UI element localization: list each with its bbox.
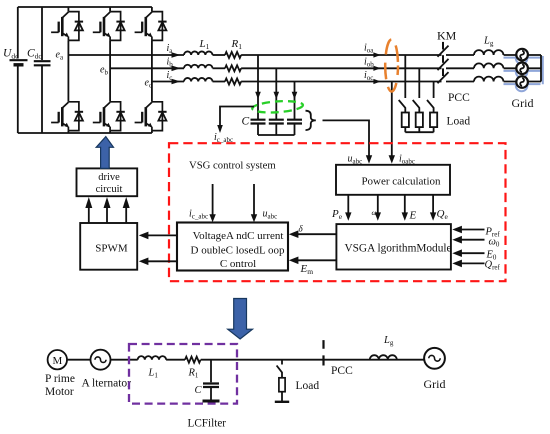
arrow ioabc into power calc xyxy=(389,155,395,163)
wire phase b L1-R1 xyxy=(213,67,226,69)
arrow down cap a xyxy=(255,92,261,100)
svg-text:ia: ia xyxy=(167,43,174,55)
machine M prime motor xyxy=(48,350,67,369)
inductor Lg single line xyxy=(370,355,397,360)
svg-text:R1: R1 xyxy=(231,38,243,51)
resistor R1 phase b xyxy=(225,65,241,71)
svg-text:A lternator: A lternator xyxy=(82,378,132,390)
wire: uabc sense line xyxy=(323,120,370,155)
svg-text:R1: R1 xyxy=(188,368,199,380)
svg-text:PCC: PCC xyxy=(331,365,353,377)
load branch bottom xyxy=(275,360,289,402)
wire: phase a line xyxy=(68,54,184,56)
svg-text:VSG control system: VSG control system xyxy=(189,159,276,171)
svg-text:Power calculation: Power calculation xyxy=(361,176,441,188)
battery Udc xyxy=(10,7,28,133)
arrow ic_abc xyxy=(217,125,223,133)
svg-text:Cdc: Cdc xyxy=(27,48,42,61)
svg-text:E: E xyxy=(409,210,417,222)
VSG control system red dashed box xyxy=(169,143,506,281)
svg-text:circuit: circuit xyxy=(96,184,123,195)
svg-text:C: C xyxy=(242,116,250,128)
arrow down cap b xyxy=(274,92,280,100)
arrow ioa xyxy=(373,52,380,57)
wire: ioabc tap xyxy=(391,82,393,156)
arrow E xyxy=(404,195,406,213)
resistor R1 single line xyxy=(185,357,201,363)
svg-text:C ontrol: C ontrol xyxy=(220,258,256,270)
PCC bus mark xyxy=(322,340,324,365)
input omega0 xyxy=(460,239,485,241)
wire: phase b line xyxy=(110,67,184,69)
transistor Q1 IGBT with freewheel diode (top leg1) xyxy=(51,12,83,41)
capacitor C phase b xyxy=(269,120,284,124)
load resistor c xyxy=(430,113,437,128)
resistor R1 phase a xyxy=(225,52,241,58)
svg-text:Load: Load xyxy=(447,116,471,128)
wire phase a to grid xyxy=(241,54,441,56)
wire phase a L1-R1 xyxy=(213,54,226,56)
svg-text:VSGA lgorithmModule: VSGA lgorithmModule xyxy=(344,243,451,255)
svg-text:ic: ic xyxy=(167,70,173,82)
arrow uabc into control xyxy=(253,184,255,215)
svg-text:ω: ω xyxy=(372,208,377,217)
transistor Q4 IGBT with freewheel diode (bottom leg2) xyxy=(93,102,125,131)
svg-text:eb: eb xyxy=(100,65,108,77)
arrow ic xyxy=(172,79,181,85)
svg-text:ioabc: ioabc xyxy=(399,154,415,166)
svg-text:LCFilter: LCFilter xyxy=(188,418,227,430)
switch KM phase c xyxy=(438,68,475,83)
svg-text:δ: δ xyxy=(299,224,304,234)
inductor Lg phase c xyxy=(474,77,503,82)
AC source grid b xyxy=(516,63,528,75)
capacitor C single line xyxy=(203,360,220,401)
load switch b xyxy=(413,100,420,113)
capacitor C phase c xyxy=(287,120,302,124)
transistor Q2 IGBT with freewheel diode (bottom leg1) xyxy=(51,102,83,131)
svg-text:C: C xyxy=(195,385,203,396)
wire: load bottoms tie xyxy=(405,127,433,132)
input Pref xyxy=(460,229,485,231)
svg-text:ioc: ioc xyxy=(364,70,373,82)
input Qref xyxy=(460,262,485,264)
arrow omega xyxy=(377,195,379,213)
wire: cap bottoms tie xyxy=(258,124,295,136)
load resistor b xyxy=(416,113,423,128)
wire: leg 2 verticals xyxy=(109,7,111,133)
transistor Q6 IGBT with freewheel diode (bottom leg3) xyxy=(135,102,167,131)
load branch b drop xyxy=(418,68,420,98)
wire control to SPWM bottom xyxy=(147,260,178,262)
transistor Q5 IGBT with freewheel diode (top leg3) xyxy=(135,12,167,41)
block: SPWM xyxy=(80,223,137,270)
svg-text:uabc: uabc xyxy=(348,154,363,166)
blue arrow up (drive to inverter) xyxy=(96,137,113,169)
wire: ic_abc tap xyxy=(220,107,254,126)
wire M to alternator xyxy=(67,359,91,361)
switch KM phase b xyxy=(438,55,475,70)
svg-text:Qe: Qe xyxy=(437,208,449,221)
svg-text:SPWM: SPWM xyxy=(95,243,128,255)
wire: phase c line xyxy=(152,81,184,83)
inductor L1 phase a xyxy=(184,51,212,55)
arrow ioc xyxy=(373,79,380,84)
svg-text:ioa: ioa xyxy=(364,43,374,55)
wire phase c to grid xyxy=(241,81,441,83)
wire control to SPWM top xyxy=(147,234,178,236)
wire: DC bottom bus xyxy=(18,132,152,134)
wire phase b to grid xyxy=(241,67,441,69)
svg-text:Grid: Grid xyxy=(424,377,446,391)
wire: leg 1 verticals xyxy=(67,7,69,133)
green measurement ellipse xyxy=(252,100,303,114)
svg-text:Udc: Udc xyxy=(3,48,19,61)
blue shadow of grid connection xyxy=(504,52,543,91)
arrow Pe xyxy=(347,195,349,213)
arrow down cap c xyxy=(292,92,298,100)
svg-text:ib: ib xyxy=(167,57,174,69)
svg-text:L1: L1 xyxy=(148,368,159,380)
svg-text:Pe: Pe xyxy=(331,208,343,221)
svg-text:iob: iob xyxy=(364,57,374,69)
inductor L1 single line xyxy=(138,356,166,360)
inductor L1 phase b xyxy=(184,65,212,69)
arrow SPWM to drive 1 xyxy=(88,207,90,223)
block: Voltage and Current Double Closed Loop Control xyxy=(177,223,288,271)
arrow ic_abc into control xyxy=(212,184,214,215)
blue arrow down (to single line diagram) xyxy=(228,299,253,340)
wire: DC top bus xyxy=(18,6,152,8)
wire: cap drop phase b xyxy=(275,68,277,119)
resistor R1 phase c xyxy=(225,79,241,85)
load resistor a xyxy=(402,113,409,128)
svg-text:Lg: Lg xyxy=(483,36,494,48)
svg-text:ic_abc: ic_abc xyxy=(189,209,208,221)
input E0 xyxy=(460,252,485,254)
svg-text:D oubleC losedL oop: D oubleC losedL oop xyxy=(191,245,285,257)
transistor Q3 IGBT with freewheel diode (top leg2) xyxy=(93,12,125,41)
svg-text:PCC: PCC xyxy=(448,92,470,104)
svg-text:VoltageA ndC urrent: VoltageA ndC urrent xyxy=(193,230,284,242)
load branch c drop xyxy=(433,82,435,99)
wire Em VSGA to control xyxy=(297,259,337,261)
block: drive circuit xyxy=(77,168,138,196)
AC source alternator xyxy=(91,350,111,370)
arrow SPWM to drive 3 xyxy=(125,207,127,223)
switch KM phase a xyxy=(438,42,475,57)
svg-text:ec: ec xyxy=(145,78,153,90)
svg-text:uabc: uabc xyxy=(263,209,278,221)
svg-text:M: M xyxy=(53,355,63,367)
wire delta VSGA to control xyxy=(297,233,337,235)
block: Power calculation xyxy=(336,165,450,195)
wire grid links xyxy=(504,55,541,82)
svg-text:drive: drive xyxy=(98,172,120,183)
brace for uabc sense xyxy=(306,111,316,130)
wire: cap drop phase a xyxy=(257,55,259,120)
arrow ib xyxy=(172,66,181,72)
arrow uabc into power calc xyxy=(366,155,372,163)
wire L1 to R1 xyxy=(166,359,185,361)
orange measurement ellipse xyxy=(385,40,398,92)
svg-text:Em: Em xyxy=(300,263,314,276)
svg-text:Motor: Motor xyxy=(45,386,74,398)
capacitor C phase a xyxy=(251,120,266,124)
purple dashed LC filter box xyxy=(129,344,237,404)
wire: cap drop phase c xyxy=(294,82,296,120)
load branch a drop xyxy=(404,55,406,98)
svg-text:Lg: Lg xyxy=(383,335,394,347)
load switch c xyxy=(427,100,434,113)
arrow SPWM to drive 2 xyxy=(106,207,108,223)
block: VSG Algorithm Module xyxy=(336,224,451,269)
wire phase c L1-R1 xyxy=(213,81,226,83)
AC source grid c xyxy=(516,76,528,88)
load switch a xyxy=(399,100,406,113)
inductor Lg phase a xyxy=(474,50,503,55)
wire: leg 3 verticals xyxy=(151,7,153,133)
svg-text:ea: ea xyxy=(56,50,64,62)
arrow ia xyxy=(172,52,181,58)
svg-text:P rime: P rime xyxy=(45,373,75,385)
capacitor Cdc xyxy=(34,7,51,133)
AC source grid bottom xyxy=(424,348,445,369)
wire R1 to PCC to grid xyxy=(201,359,424,361)
svg-text:KM: KM xyxy=(437,29,457,43)
arrow Qe xyxy=(432,195,434,213)
arrow iob xyxy=(373,66,380,71)
svg-text:Grid: Grid xyxy=(512,96,534,110)
inductor Lg phase b xyxy=(474,63,503,68)
inductor L1 phase c xyxy=(184,78,212,82)
svg-text:Load: Load xyxy=(296,380,320,392)
AC source grid a xyxy=(516,49,528,61)
svg-text:L1: L1 xyxy=(199,38,210,51)
wire alternator to L1 xyxy=(111,359,138,361)
